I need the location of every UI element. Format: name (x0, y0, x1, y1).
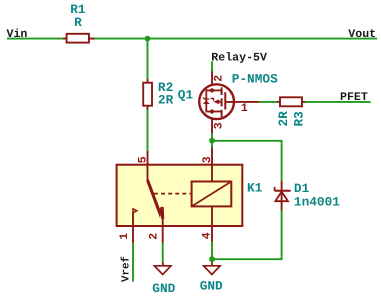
svg-text:Vin: Vin (7, 28, 28, 41)
svg-text:3: 3 (212, 122, 225, 129)
node Vin label (7, 28, 28, 41)
wire D1 bottom to junction (212, 210, 282, 259)
wire gate to R3 (259, 101, 278, 103)
wire Relay-5V stub to Q1 drain (211, 61, 213, 72)
wire Q1 source to junction (211, 133, 213, 148)
svg-text:1n4001: 1n4001 (294, 195, 340, 210)
ground under pin2 (152, 262, 175, 296)
svg-text:Relay-5V: Relay-5V (211, 52, 267, 65)
svg-text:GND: GND (200, 279, 223, 294)
resistor R2 (143, 79, 173, 110)
wire R2 to relay pin 5 (147, 109, 149, 151)
node Vout label (348, 28, 376, 41)
svg-text:1: 1 (118, 233, 131, 240)
svg-text:2R: 2R (276, 111, 291, 127)
svg-text:1: 1 (241, 102, 248, 115)
svg-text:Vref: Vref (121, 256, 133, 282)
wire relay pin4 to bottom junction (211, 242, 213, 263)
junction Q1 source node (209, 138, 215, 144)
svg-text:K1: K1 (247, 180, 263, 195)
ground under pin4 (200, 262, 223, 293)
transistor Q1 P-MOSFET (178, 72, 278, 134)
svg-text:Q1: Q1 (178, 88, 194, 103)
resistor R3 (276, 97, 307, 126)
svg-text:Vout: Vout (348, 28, 376, 41)
node Relay-5V label (211, 52, 267, 65)
svg-text:PFET: PFET (340, 91, 368, 104)
svg-text:R: R (74, 15, 82, 30)
wire R3 to PFET (305, 101, 371, 103)
diode D1 (275, 181, 341, 211)
svg-text:3: 3 (201, 156, 214, 163)
relay K1 (117, 147, 263, 243)
svg-text:4: 4 (201, 232, 214, 239)
wire relay pin2 to ground (162, 243, 164, 262)
svg-text:GND: GND (152, 281, 175, 296)
resistor R1 (63, 2, 94, 42)
svg-text:5: 5 (137, 156, 150, 163)
node PFET label (340, 91, 368, 104)
junction bottom node (209, 256, 215, 262)
wire junction to D1 top (212, 141, 282, 181)
svg-text:2R: 2R (158, 92, 174, 107)
wire relay pin1 to Vref (132, 243, 134, 282)
wire junction down to R2 (147, 39, 149, 80)
svg-text:P-NMOS: P-NMOS (232, 72, 278, 87)
junction at R2 tap (145, 36, 151, 42)
svg-text:R3: R3 (291, 111, 306, 127)
svg-text:2: 2 (212, 75, 225, 82)
svg-text:2: 2 (148, 233, 161, 240)
wire Vin to Vout top rail (7, 38, 377, 40)
node Vref label (121, 256, 133, 282)
